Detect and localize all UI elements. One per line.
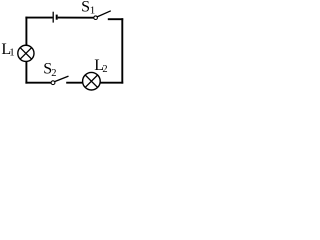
wire battery to switch S1	[58, 17, 94, 19]
svg-text:1: 1	[90, 5, 96, 17]
battery long plate (left)	[52, 12, 54, 23]
wire top-left horizontal segment	[25, 17, 52, 19]
svg-text:1: 1	[9, 47, 15, 59]
wire S1 fixed contact to top-right corner	[108, 18, 123, 20]
switch S2 pivot circle	[51, 81, 55, 85]
switch S1 pivot circle	[94, 16, 98, 20]
wire bottom-right segment	[100, 82, 123, 84]
wire S2 to L2	[66, 82, 83, 84]
lamp L2	[83, 72, 101, 90]
battery short thick plate (right)	[56, 15, 58, 20]
switch S1 arm	[97, 11, 111, 17]
wire bottom-left segment	[25, 82, 51, 84]
switch S2 arm	[55, 76, 69, 82]
svg-text:2: 2	[51, 68, 56, 79]
wire left side vertical upper	[25, 17, 27, 45]
wire left side vertical lower	[25, 62, 27, 84]
svg-text:2: 2	[102, 64, 107, 75]
wire right side vertical	[121, 18, 123, 83]
svg-text:S: S	[81, 0, 90, 16]
lamp L1	[18, 45, 34, 61]
